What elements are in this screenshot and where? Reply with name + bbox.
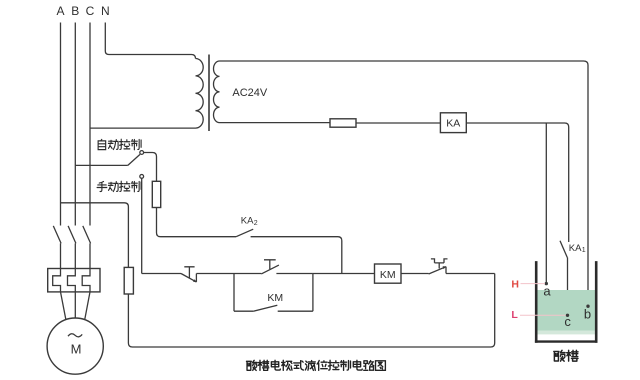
wire to start button SB2 [234, 273, 261, 275]
caption acid tank electrode level control circuit [247, 360, 386, 370]
stop button SB1 contact stub [195, 274, 197, 282]
transformer T1 secondary winding [214, 61, 220, 123]
selector wire from phase B [75, 164, 128, 166]
wire FR to motor leads [61, 292, 91, 319]
wire auto contact to fuse FU3 [144, 153, 157, 182]
thermal relay FR element A [53, 269, 61, 292]
wire manual contact down to rung [141, 178, 143, 273]
stop button SB1 blade [181, 274, 196, 282]
wire KM coil to pull switch [401, 273, 429, 275]
electrode c tip [566, 314, 569, 317]
svg-text:H: H [511, 279, 519, 291]
selector blade [128, 154, 140, 165]
wire phase A feeder [60, 23, 62, 226]
wire secondary top to electrode b [220, 61, 589, 307]
wire junction right branch [312, 274, 314, 312]
svg-text:L: L [511, 309, 518, 321]
leader line H [521, 283, 546, 285]
wire secondary bottom to fuse FU2 [220, 122, 331, 124]
label auto control [98, 139, 141, 150]
contactor coil KM [375, 264, 402, 283]
svg-text:B: B [71, 4, 79, 18]
transformer T1 core [208, 55, 210, 132]
contact KM aux bottom left wire [234, 310, 253, 312]
svg-text:KA: KA [569, 243, 582, 254]
svg-text:N: N [101, 4, 110, 18]
wire pull switch to right riser [446, 273, 495, 275]
start button SB2 blade [261, 265, 279, 274]
electrode b tip [586, 305, 589, 308]
fuse FU2 [330, 119, 356, 127]
svg-text:AC24V: AC24V [232, 87, 268, 99]
stop button SB1 tip arrow [193, 279, 197, 282]
transformer T1 primary winding [196, 59, 204, 129]
motor M circle [47, 318, 103, 374]
svg-text:KM: KM [267, 292, 283, 304]
wire KM aux right [278, 310, 313, 312]
electrode a tip [545, 282, 548, 285]
start button SB2 operator [264, 260, 276, 269]
wire QS lower leads [61, 243, 91, 268]
tank left wall [535, 261, 538, 343]
thermal relay FR element B [68, 269, 76, 292]
wire to contactor coil KM [313, 273, 375, 275]
contact KA1 blade [560, 241, 567, 258]
svg-text:C: C [86, 4, 95, 18]
wire junction left branch [233, 274, 235, 312]
wire SB1 to junction [196, 273, 234, 275]
wire KA2 to rung junction [251, 237, 342, 274]
thermal relay FR box [48, 269, 100, 292]
svg-text:2: 2 [254, 220, 258, 227]
contact KA2 blade [236, 229, 253, 237]
wire rung start [142, 273, 181, 275]
svg-text:1: 1 [582, 247, 586, 254]
liquid fill [538, 290, 596, 331]
svg-text:M: M [71, 342, 82, 357]
wire KA1 to electrode c [567, 258, 569, 316]
pull switch operator [431, 259, 448, 269]
wire fuse FU3 to contact KA2 [157, 208, 237, 237]
wire transformer primary bottom to phase C [90, 127, 196, 129]
pull switch tip arrow [443, 266, 447, 269]
tank right wall [595, 261, 598, 343]
selector contact manual [140, 175, 144, 179]
label manual control [97, 181, 141, 192]
selector contact auto [140, 151, 144, 155]
svg-text:a: a [543, 284, 551, 299]
wire fuse FU2 to relay KA [356, 122, 440, 124]
knife switch QS blade C [83, 226, 91, 244]
tank bottom [535, 340, 598, 342]
relay coil KA [440, 113, 466, 133]
svg-text:A: A [56, 4, 64, 18]
pull switch contact stub [445, 267, 447, 274]
wire bottom return rung [128, 274, 494, 348]
svg-text:b: b [584, 307, 591, 322]
pull switch blade [429, 267, 446, 274]
wire relay KA to contact KA1 [466, 123, 568, 242]
fuse FU3 [152, 181, 160, 207]
svg-text:KA: KA [241, 216, 254, 227]
wire phase A tap [61, 203, 129, 268]
fuse FU1 [124, 267, 133, 294]
wire phase C feeder [89, 23, 91, 226]
svg-text:KA: KA [446, 118, 460, 130]
wire SB2 to junction right [276, 273, 313, 275]
svg-text:KM: KM [380, 269, 396, 281]
leader line L [520, 314, 566, 316]
knife switch QS blade B [68, 226, 76, 244]
contact KM aux blade [253, 305, 277, 311]
svg-text:c: c [564, 314, 571, 329]
stop button SB1 operator [184, 267, 194, 278]
thermal relay FR element C [82, 269, 90, 292]
wire phase B feeder [74, 23, 76, 226]
wire neutral N to transformer primary [105, 23, 195, 59]
wire to electrode a [545, 123, 547, 283]
knife switch QS blade A [53, 226, 61, 244]
label acid tank (suan cao) [554, 350, 578, 361]
motor tilde [68, 334, 82, 337]
